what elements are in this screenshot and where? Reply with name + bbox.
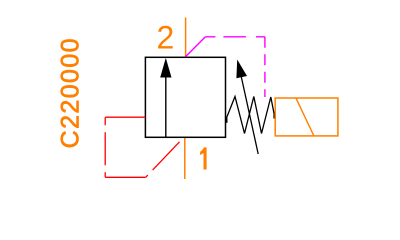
spring attach dot bbox=[225, 118, 228, 123]
valve body box bbox=[145, 57, 225, 137]
spring attach dot right bbox=[273, 115, 276, 119]
solenoid diagonal bbox=[296, 98, 314, 136]
spring bbox=[226, 97, 275, 134]
label 1 bbox=[200, 147, 207, 169]
adjustment arrow bbox=[236, 60, 258, 155]
port 1 line bbox=[184, 137, 186, 179]
port 2 line bbox=[185, 18, 187, 58]
drain line (red dashed) bbox=[105, 117, 185, 177]
flow arrow bbox=[160, 58, 171, 137]
pilot line (magenta dashed) bbox=[186, 37, 265, 97]
solenoid box bbox=[275, 98, 338, 136]
svg-text:C220000: C220000 bbox=[57, 37, 85, 148]
svg-text:2: 2 bbox=[157, 20, 175, 56]
